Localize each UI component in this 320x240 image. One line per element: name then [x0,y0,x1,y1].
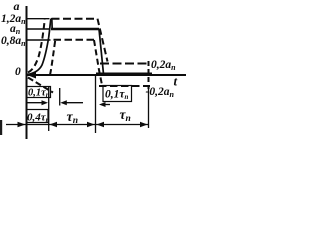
box 0.1tn left [27,87,51,98]
dashed template end vertical [148,61,150,89]
level line 1.2an [26,18,50,20]
dashed tail -0.2an [99,85,150,87]
arrow left under right box [102,104,110,106]
svg-text:a: a [14,0,20,13]
arrow left opposing [62,102,83,104]
dashed outer falling edge [98,19,108,62]
dashed outer top 1.2an [52,18,98,20]
dim arrowhead left tip 49.5 [50,122,58,127]
solid pulse flat top an [51,28,99,31]
level line an [26,28,50,30]
leader from origin to 0.1tn box [28,78,53,93]
solid pulse baseline after fall [96,72,152,74]
dashed outer rising edge [28,20,45,73]
arrowhead left at x=50 y=102 [60,100,67,105]
dim arrowhead left tip 96.5 [97,122,105,127]
solid pulse overshoot drop [51,19,52,29]
ref line x=59.5 [59,88,61,106]
dashed inner top 0.8an [54,39,95,41]
arrowhead right at x=47.5 y=102 [42,100,49,105]
axis a (vertical) [26,6,28,139]
solid pulse rising edge [27,19,51,75]
svg-text:0: 0 [15,66,21,78]
arrowhead left at x=99 y=104.5 [99,102,106,107]
dim arrowhead right tip 25.5 [18,122,26,127]
dashed inner rising edge [50,41,55,76]
box 0.1tn right [103,86,132,102]
dim arrowhead right tip 147.5 [140,122,148,127]
dimension line [6,124,149,126]
arrowhead at origin [27,72,36,79]
level line 0.8an [26,39,51,41]
solid pulse falling edge [99,29,104,74]
box 0.4tn [27,110,49,123]
ref line x=95.5 [95,76,97,133]
ref line x=148.5 [148,89,150,128]
ref line x=48.5 [48,87,50,132]
dashed tail +0.2an [100,63,150,65]
svg-text:t: t [174,74,178,89]
dashed inner falling edge [94,40,102,85]
dim arrowhead right tip 94.5 [87,122,95,127]
edge smudge [0,120,2,135]
arrow right under left box [27,102,44,104]
axis t (horizontal) [26,74,186,76]
